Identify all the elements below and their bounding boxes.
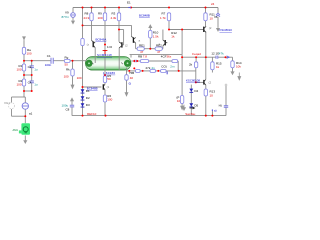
svg-text:E1: E1 (127, 0, 131, 4)
svg-text:(2: (2 (125, 44, 128, 48)
svg-text:10: 10 (210, 93, 214, 97)
svg-text:100: 100 (98, 16, 103, 20)
svg-text:4.3k: 4.3k (111, 16, 117, 20)
svg-text:10k: 10k (236, 65, 241, 69)
svg-text:100: 100 (17, 68, 22, 72)
svg-text:a1: a1 (29, 112, 33, 116)
svg-text:1u: 1u (34, 67, 38, 71)
svg-text:SasTau: SasTau (185, 112, 195, 116)
svg-text:50: 50 (107, 77, 111, 81)
svg-text:2k: 2k (189, 62, 193, 66)
svg-text:75B: 75B (129, 71, 134, 75)
svg-text:V1: V1 (214, 15, 218, 19)
svg-text:47: 47 (157, 50, 161, 54)
svg-text:50: 50 (65, 63, 69, 67)
svg-text:47: 47 (140, 50, 144, 54)
svg-text:27k: 27k (146, 66, 151, 70)
svg-text:RB: RB (138, 55, 142, 59)
svg-text:Feqad: Feqad (192, 52, 201, 56)
svg-text:C8: C8 (66, 108, 70, 112)
svg-text:10: 10 (210, 17, 214, 21)
svg-text:H): H) (219, 103, 222, 107)
svg-text:2m: 2m (170, 65, 175, 69)
svg-text:100: 100 (27, 51, 32, 55)
svg-text:1k: 1k (171, 34, 175, 38)
svg-text:AM1: AM1 (13, 128, 19, 132)
svg-text:KSC80108: KSC80108 (186, 79, 200, 83)
svg-text:a): a) (214, 109, 217, 113)
svg-text:1u: 1u (34, 82, 38, 86)
svg-text:D1: D1 (86, 89, 90, 93)
svg-text:40: 40 (130, 76, 134, 80)
svg-text:VG1: VG1 (4, 101, 10, 105)
svg-text:CO): CO) (161, 65, 167, 69)
svg-text:C4: C4 (28, 80, 32, 84)
svg-text:D5: D5 (194, 104, 198, 108)
svg-text:BC846A: BC846A (96, 37, 107, 41)
svg-text:4n: 4n (151, 66, 155, 70)
svg-text:100: 100 (77, 76, 82, 80)
svg-text:C3: C3 (28, 65, 32, 69)
svg-text:RE1: RE1 (139, 43, 145, 47)
svg-text:10: 10 (177, 99, 181, 103)
svg-text:24.9: 24.9 (84, 16, 90, 20)
svg-text:0): 0) (129, 82, 132, 86)
svg-text:1k: 1k (216, 65, 220, 69)
svg-text:(2: (2 (209, 81, 212, 85)
svg-text:100: 100 (17, 83, 22, 87)
svg-text:1.7k: 1.7k (160, 16, 166, 20)
svg-text:100n: 100n (45, 63, 52, 67)
svg-text:(1: (1 (107, 85, 110, 89)
svg-text:(2: (2 (209, 26, 212, 30)
svg-text:7.8: 7.8 (143, 55, 148, 59)
svg-text:1=0: 1=0 (107, 45, 112, 49)
svg-text:D3: D3 (86, 103, 90, 107)
svg-text:100: 100 (107, 97, 112, 101)
svg-text:D2: D2 (86, 96, 90, 100)
svg-text:Rk: Rk (66, 67, 70, 71)
svg-text:1.5k: 1.5k (153, 34, 159, 38)
svg-text:KSC8010: KSC8010 (220, 28, 233, 32)
svg-text:REF10: REF10 (87, 112, 97, 116)
svg-text:C1: C1 (47, 54, 51, 58)
svg-text:Rg: Rg (65, 55, 69, 59)
svg-text:BC848B: BC848B (139, 13, 150, 17)
svg-text:100: 100 (64, 75, 69, 79)
svg-text:877m: 877m (62, 15, 70, 19)
svg-text:D4: D4 (194, 89, 198, 93)
svg-text:36x: 36x (166, 55, 171, 59)
svg-text:SOM5CW: SOM5CW (97, 53, 112, 57)
svg-text:24: 24 (211, 2, 215, 6)
svg-text:47k: 47k (219, 51, 224, 55)
svg-text:RE2: RE2 (156, 43, 162, 47)
